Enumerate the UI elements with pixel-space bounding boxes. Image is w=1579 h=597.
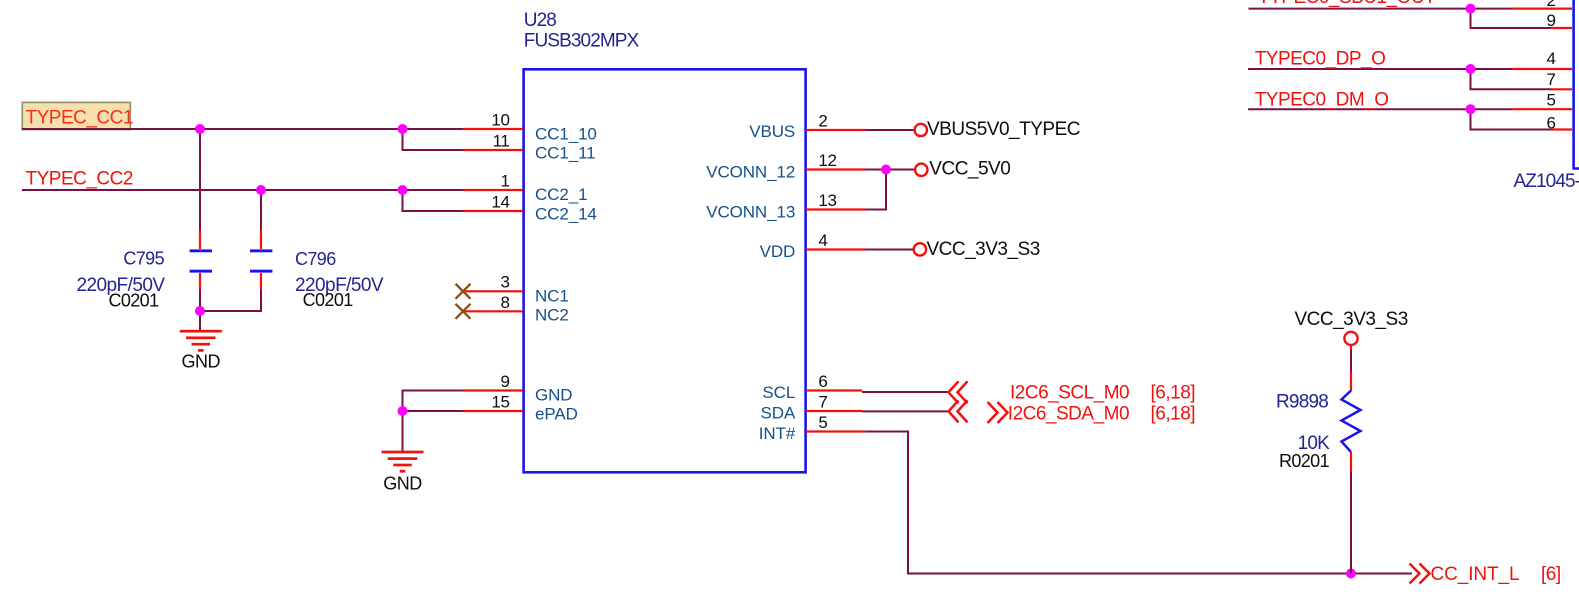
svg-text:VBUS: VBUS xyxy=(749,122,795,141)
svg-text:TYPEC0_DM_O: TYPEC0_DM_O xyxy=(1255,90,1389,111)
svg-text:VCC_5V0: VCC_5V0 xyxy=(929,158,1010,179)
svg-text:5: 5 xyxy=(1547,91,1556,110)
svg-text:GND: GND xyxy=(535,386,572,405)
svg-text:VDD: VDD xyxy=(760,242,796,261)
svg-text:7: 7 xyxy=(1547,70,1556,89)
svg-text:C796: C796 xyxy=(295,249,336,269)
svg-text:3: 3 xyxy=(500,273,509,292)
svg-text:VCC_3V3_S3: VCC_3V3_S3 xyxy=(927,239,1040,260)
svg-text:2: 2 xyxy=(818,111,827,130)
svg-text:CC_INT_L: CC_INT_L xyxy=(1431,564,1520,585)
svg-text:[6,18]: [6,18] xyxy=(1151,383,1196,404)
svg-text:I2C6_SCL_M0: I2C6_SCL_M0 xyxy=(1010,383,1129,404)
svg-text:VCONN_12: VCONN_12 xyxy=(706,162,795,181)
svg-text:U28: U28 xyxy=(524,10,556,31)
svg-text:VCC_3V3_S3: VCC_3V3_S3 xyxy=(1295,309,1408,330)
svg-text:ePAD: ePAD xyxy=(535,405,578,424)
svg-text:CC1_11: CC1_11 xyxy=(535,143,596,162)
svg-text:4: 4 xyxy=(1547,49,1556,68)
svg-text:TYPEC0_SBU1_OUT: TYPEC0_SBU1_OUT xyxy=(1258,0,1436,8)
svg-text:GND: GND xyxy=(383,473,422,493)
svg-text:CC2_14: CC2_14 xyxy=(535,205,597,224)
svg-text:1: 1 xyxy=(500,172,509,191)
svg-text:R9898: R9898 xyxy=(1276,392,1328,413)
svg-text:5: 5 xyxy=(818,413,827,432)
svg-text:C0201: C0201 xyxy=(108,291,159,311)
svg-text:C0201: C0201 xyxy=(303,290,354,310)
svg-text:6: 6 xyxy=(1547,114,1556,133)
svg-text:CC2_1: CC2_1 xyxy=(535,185,587,204)
svg-text:[6]: [6] xyxy=(1541,564,1561,585)
svg-text:FUSB302MPX: FUSB302MPX xyxy=(524,30,640,51)
svg-text:CC1_10: CC1_10 xyxy=(535,124,597,143)
svg-text:NC2: NC2 xyxy=(535,305,569,324)
svg-text:C795: C795 xyxy=(123,249,164,269)
svg-text:AZ1045-04: AZ1045-04 xyxy=(1514,171,1579,192)
svg-text:10: 10 xyxy=(491,111,509,130)
svg-text:VCONN_13: VCONN_13 xyxy=(706,202,795,221)
svg-text:TYPEC0_DP_O: TYPEC0_DP_O xyxy=(1255,48,1386,69)
svg-text:13: 13 xyxy=(818,191,836,210)
svg-text:GND: GND xyxy=(182,351,221,371)
svg-text:7: 7 xyxy=(818,393,827,412)
svg-text:11: 11 xyxy=(493,132,510,151)
svg-text:TYPEC_CC2: TYPEC_CC2 xyxy=(26,168,133,189)
svg-text:6: 6 xyxy=(818,372,827,391)
svg-text:9: 9 xyxy=(500,372,509,391)
svg-text:9: 9 xyxy=(1547,11,1556,30)
svg-text:R0201: R0201 xyxy=(1279,451,1330,471)
svg-text:NC1: NC1 xyxy=(535,286,569,305)
svg-text:SCL: SCL xyxy=(762,383,795,402)
svg-text:4: 4 xyxy=(818,231,827,250)
svg-text:I2C6_SDA_M0: I2C6_SDA_M0 xyxy=(1008,404,1129,425)
svg-text:VBUS5V0_TYPEC: VBUS5V0_TYPEC xyxy=(927,119,1080,140)
svg-text:8: 8 xyxy=(500,293,509,312)
svg-text:2: 2 xyxy=(1547,0,1556,10)
svg-text:[6,18]: [6,18] xyxy=(1151,404,1196,425)
svg-text:TYPEC_CC1: TYPEC_CC1 xyxy=(26,108,133,129)
svg-text:14: 14 xyxy=(491,193,509,212)
svg-text:SDA: SDA xyxy=(761,404,796,423)
svg-text:INT#: INT# xyxy=(759,424,796,443)
svg-text:15: 15 xyxy=(491,393,509,412)
svg-text:12: 12 xyxy=(818,151,836,170)
